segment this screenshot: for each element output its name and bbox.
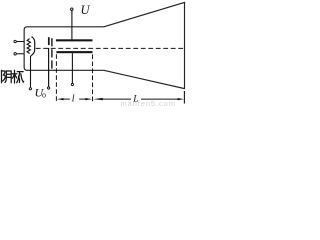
svg-text:o: o xyxy=(42,91,46,100)
svg-text:U: U xyxy=(81,3,91,17)
cathode terminal xyxy=(29,88,31,90)
U terminal xyxy=(71,8,73,10)
svg-text:l: l xyxy=(72,93,75,104)
tube envelope (neck, funnel, screen) xyxy=(24,2,184,88)
grid electrode G (dashed) xyxy=(48,37,50,45)
extension line at screen (right end of L) xyxy=(183,91,185,104)
wire from U terminal to upper plate xyxy=(71,10,73,39)
wire heater terminal 2 to envelope xyxy=(17,53,24,55)
anode terminal xyxy=(48,87,50,89)
anode lead wire down xyxy=(48,48,50,87)
lower plate lead wire down xyxy=(71,53,73,83)
cathode lead wire down xyxy=(30,56,33,88)
svg-text:manfen5.com: manfen5.com xyxy=(121,99,176,106)
阴 radical 阝 xyxy=(1,70,3,82)
beam axis (dashed centerline) xyxy=(36,47,184,49)
cathode curved plate xyxy=(31,37,35,56)
anode electrode A (dashed) xyxy=(51,38,53,70)
upper deflection plate xyxy=(56,39,93,41)
wire heater terminal 1 to envelope xyxy=(17,41,24,43)
extension line at plate right end xyxy=(92,55,94,103)
heater terminal 2 xyxy=(14,53,16,55)
lower deflection plate xyxy=(56,51,92,53)
extension line at plate left end xyxy=(55,54,57,102)
lower plate terminal xyxy=(71,83,73,85)
dimension L arrows xyxy=(93,98,184,100)
heater terminal 1 xyxy=(14,40,16,42)
阴 right part 月 xyxy=(6,71,11,83)
filament zigzag xyxy=(27,39,30,54)
极 radical 木 xyxy=(14,70,16,83)
dimension l arrows xyxy=(57,98,92,100)
极 right part 及 xyxy=(17,71,23,73)
label 阴极 (cathode) drawn as vector strokes xyxy=(2,70,24,83)
